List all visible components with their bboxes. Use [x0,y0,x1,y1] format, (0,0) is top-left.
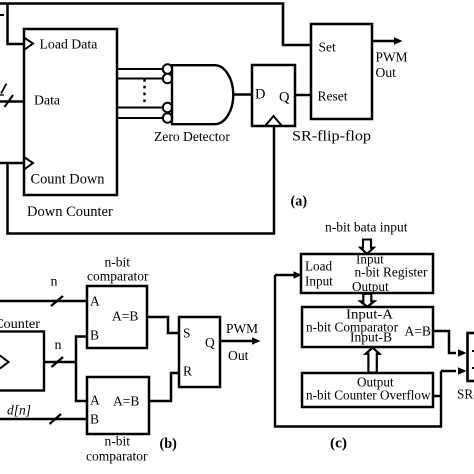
wire counter output b [44,361,77,364]
svg-text:Load: Load [305,259,333,274]
svg-text:comparator: comparator [86,449,148,464]
wire PWM out b [220,340,253,343]
wire AND output to D [233,93,252,96]
svg-text:Input: Input [305,274,333,289]
bus slash d[n] wire [50,414,62,424]
wire feedback loop c [275,275,441,427]
wire branch to Load Data clock [8,4,25,45]
svg-text:Reset: Reset [318,89,348,104]
wire counter output 4 [117,117,163,119]
svg-text:n: n [51,275,58,290]
svg-text:(a): (a) [291,194,308,210]
wire comp2 to R [149,373,179,401]
svg-text:Output: Output [352,279,389,294]
svg-text:A=B: A=B [405,324,431,339]
svg-text:Count Down: Count Down [31,172,105,188]
wire comp1 to S [147,317,179,333]
clock triangle counter b [0,356,9,369]
arrowhead overflow to SR [458,367,467,374]
wire tee to B comp1 and A comp2 [76,337,87,402]
svg-text:Q: Q [205,335,215,350]
label fragment d[n] cut [1,84,7,94]
svg-text:d[n]: d[n] [7,403,31,418]
svg-text:Down Counter: Down Counter [27,204,113,220]
svg-text:B: B [90,328,99,343]
inverter bubble 4 [163,113,172,122]
svg-text:A: A [90,294,100,309]
svg-text:A=B: A=B [113,394,139,409]
counter box b [0,332,44,391]
svg-text:Out: Out [376,65,397,80]
bus slash counter b [52,357,64,367]
svg-text:n-bit bata input: n-bit bata input [325,220,408,235]
wire A=B to SR c [433,331,456,353]
inverter bubble 3 [163,103,172,112]
svg-text:A: A [90,393,100,408]
counter box c [302,373,433,407]
D flip-flop U2 [252,65,295,126]
svg-text:(b): (b) [160,436,178,452]
wire PWM out a [372,40,394,43]
svg-text:D: D [255,87,265,103]
wire Count Down clock input [0,162,24,165]
arrowhead PWM out a [394,37,403,44]
comparator1 box b [87,286,147,348]
svg-text:A=B: A=B [112,309,138,324]
wire B input comp2 [0,418,87,420]
wire Q to Reset [295,94,311,97]
comparator2 box b [87,377,149,434]
clock triangle Count Down [24,157,33,170]
svg-text:SR-f: SR-f [457,387,474,402]
bus slash A comp1 [51,296,63,306]
wire counter output 1 [117,68,163,70]
svg-text:S: S [183,326,191,341]
wire counter output 2 [117,78,163,80]
svg-text:comparator: comparator [87,269,149,284]
SR latch box b [179,317,220,387]
svg-text:(c): (c) [330,436,347,452]
svg-text:Load Data: Load Data [40,37,98,52]
dotted ellipsis between buses [143,79,145,104]
svg-text:Q: Q [279,90,290,106]
AND gate zero detector [172,65,233,124]
arrowhead PWM out b [252,337,261,344]
bus slash on Data wire [5,95,14,107]
hollow arrow register to comparator [360,294,374,307]
svg-text:Input-B: Input-B [350,330,392,345]
wire A input comp1 [0,300,87,302]
svg-text:n: n [55,338,62,353]
svg-text:n-bit Counter Overflow: n-bit Counter Overflow [306,388,431,403]
svg-text:R: R [183,364,192,379]
clock triangle Load Data [24,38,33,51]
down counter U1 [24,29,117,195]
wire clock feedback to D flip-flop [8,126,275,234]
svg-text:n-bit: n-bit [105,255,131,270]
label fragment in SR box c [472,350,474,352]
svg-text:Set: Set [319,40,337,55]
wire overflow arrow to SR [441,370,456,373]
svg-text:Counter: Counter [0,316,40,331]
wire Data bus input [0,100,24,103]
svg-text:Out: Out [228,348,249,363]
svg-text:n-bit Register: n-bit Register [355,265,429,280]
svg-text:n-bit: n-bit [105,434,131,449]
arrowhead A=B to SR [458,349,467,356]
svg-text:Data: Data [34,93,60,108]
hollow arrow counter to comparator [366,348,380,373]
wire overflow to SR line [433,395,441,398]
SR flip-flop U3 [311,24,372,119]
inverter bubble 1 [163,64,172,73]
svg-text:SR-flip-flop: SR-flip-flop [292,129,371,145]
wire load input arrow [275,274,294,277]
svg-text:Zero Detector: Zero Detector [154,129,230,144]
clock triangle D flip-flop [265,116,282,126]
wire stub left edge [0,14,4,16]
SR latch box c cut [468,333,474,381]
wire top clock line to Set [0,4,311,46]
arrowhead load input [294,271,303,278]
comparator box c [302,307,433,347]
svg-text:B: B [90,412,99,427]
inverter bubble 2 [163,74,172,83]
wire counter output 3 [117,107,163,109]
hollow arrow data input [360,240,373,254]
svg-text:PWM: PWM [226,321,258,336]
svg-text:PWM: PWM [376,50,408,65]
register box c [301,254,433,293]
